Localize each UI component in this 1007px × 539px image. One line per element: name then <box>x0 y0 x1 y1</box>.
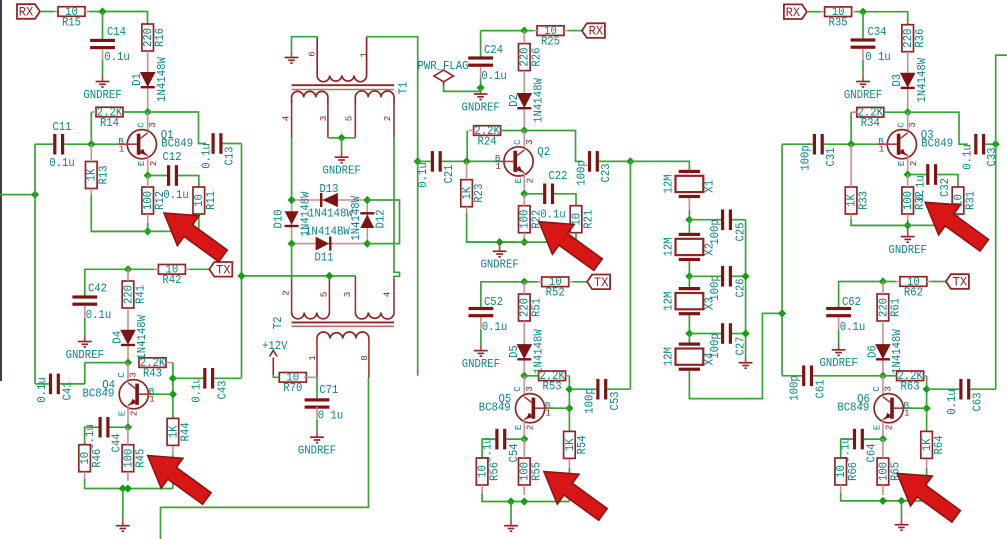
ground <box>745 357 747 363</box>
bridge bottom line <box>292 243 368 245</box>
wire rail to C21 <box>418 160 431 162</box>
svg-text:R42: R42 <box>162 274 181 287</box>
T1 pin 2 wire down to T2 pin 4 <box>393 103 395 138</box>
+12V power symbol <box>272 358 274 375</box>
junction <box>144 227 152 235</box>
wire C24 branch to node <box>481 30 525 32</box>
wire X1 to X2 <box>688 220 690 233</box>
svg-text:3: 3 <box>524 386 535 392</box>
wire C71 to ground <box>316 420 318 431</box>
junction collector node Q5 <box>520 372 528 380</box>
wire bottom rail block6 <box>841 493 927 501</box>
svg-text:E: E <box>513 424 524 430</box>
svg-text:E: E <box>117 410 128 416</box>
svg-text:C: C <box>136 122 147 128</box>
svg-text:C71: C71 <box>319 384 338 397</box>
svg-text:100p: 100p <box>788 375 801 401</box>
wire pin4 down <box>291 138 293 201</box>
wire C62 branch to node <box>839 282 883 308</box>
wire C25 to cap rail <box>732 219 746 221</box>
svg-text:+12V: +12V <box>262 340 288 353</box>
wire to C71 <box>316 377 318 398</box>
svg-text:T2: T2 <box>272 316 285 329</box>
svg-text:C12: C12 <box>162 151 181 164</box>
svg-text:1N4148W: 1N4148W <box>916 58 929 103</box>
red arrow 5 (points at R55) <box>544 472 607 521</box>
svg-text:R16: R16 <box>154 28 167 47</box>
junction <box>520 238 528 246</box>
svg-text:C21: C21 <box>443 164 456 183</box>
resistor R46 <box>79 445 91 472</box>
svg-text:100p: 100p <box>709 219 722 245</box>
svg-text:RX: RX <box>786 5 801 20</box>
svg-text:C43: C43 <box>216 380 229 399</box>
wire R34 to base rail <box>850 112 852 144</box>
svg-text:3: 3 <box>524 139 535 145</box>
svg-text:1N4148W: 1N4148W <box>350 196 363 241</box>
wire R12 to bottom rail <box>147 223 149 231</box>
capacitor C63 <box>959 379 962 400</box>
ground <box>510 520 512 526</box>
wire C33 to right rail <box>985 143 996 145</box>
svg-text:C31: C31 <box>825 147 838 166</box>
svg-text:R63: R63 <box>901 381 920 394</box>
svg-text:100p: 100p <box>575 160 588 186</box>
wire R34 to node <box>884 111 908 113</box>
wire input rail to C31 <box>782 143 813 145</box>
wire T1 pin2 to T2 pin4 <box>394 138 400 279</box>
junction collector node Q3 <box>904 108 912 116</box>
capacitor C62 <box>826 307 851 310</box>
resistor R34 <box>857 107 884 117</box>
junction R51 top node <box>520 278 528 286</box>
wire C11 to base <box>64 143 118 145</box>
svg-text:1N4148W: 1N4148W <box>308 207 353 220</box>
svg-text:1: 1 <box>149 394 155 405</box>
wire C53 to filter rail <box>607 388 630 390</box>
svg-text:R62: R62 <box>904 286 923 299</box>
wire bridge out <box>291 244 293 277</box>
svg-text:Q2: Q2 <box>537 146 550 159</box>
svg-text:1N414BW: 1N414BW <box>305 226 350 239</box>
diode D12 <box>366 200 368 244</box>
capacitor C13 <box>212 133 215 154</box>
svg-text:R31: R31 <box>964 191 977 210</box>
junction <box>626 157 634 165</box>
svg-text:R45: R45 <box>134 449 147 468</box>
svg-text:6: 6 <box>306 51 317 57</box>
bridge top line <box>292 199 368 201</box>
svg-text:2: 2 <box>148 161 159 167</box>
svg-text:1: 1 <box>495 161 501 172</box>
svg-text:GNDREF: GNDREF <box>322 165 360 178</box>
svg-text:D10: D10 <box>272 209 285 228</box>
junction <box>859 8 867 16</box>
diode D11 <box>316 237 330 251</box>
wire R22 to bottom <box>523 238 525 242</box>
svg-text:GNDREF: GNDREF <box>462 358 500 371</box>
wire X1 out <box>688 210 690 220</box>
wire node to R42 <box>128 268 154 270</box>
svg-text:1N4148W: 1N4148W <box>891 329 904 374</box>
T1 pins 3,5 center tap <box>327 103 329 138</box>
wire TX rail down <box>241 144 243 276</box>
wire node to R52 <box>524 281 537 283</box>
svg-text:0 1u: 0 1u <box>318 410 344 423</box>
svg-text:D4: D4 <box>112 331 125 344</box>
capacitor C42 <box>72 295 97 298</box>
T2 sec-right arcs <box>355 313 394 319</box>
junction <box>992 140 1000 148</box>
svg-text:C11: C11 <box>52 121 71 134</box>
red arrow 4 (points at R45) <box>148 456 211 505</box>
wire RX to R15 <box>40 11 55 13</box>
wire C41 to node <box>60 383 85 385</box>
T1 sec-left arcs <box>292 91 328 97</box>
resistor R45 <box>122 445 134 472</box>
svg-text:C61: C61 <box>814 379 827 398</box>
wire filter input <box>630 161 689 169</box>
svg-text:5: 5 <box>318 292 329 298</box>
wire input rail down to C61 <box>781 144 783 376</box>
wire bottom rail block2 <box>467 233 576 242</box>
svg-text:100p: 100p <box>799 145 812 171</box>
resistor R55 <box>519 458 531 485</box>
wire node to C25 <box>689 219 721 221</box>
junction collector node Q6 <box>879 372 887 380</box>
global label TX (block5) <box>587 275 610 290</box>
wire R25 to RX flag <box>569 30 582 32</box>
svg-text:0.1u: 0.1u <box>190 377 203 403</box>
resistor R12 <box>142 187 154 214</box>
capacitor C61 <box>802 366 805 387</box>
T1 sec-right arcs <box>355 91 394 97</box>
svg-text:GNDREF: GNDREF <box>461 101 499 114</box>
wire C62 to ground <box>838 330 840 344</box>
capacitor C27 <box>721 323 724 344</box>
resistor R26 <box>519 44 531 71</box>
wire from left edge <box>0 194 35 196</box>
svg-text:C: C <box>871 386 882 392</box>
capacitor C25 <box>721 209 724 230</box>
wire C54 to R56 <box>482 439 495 458</box>
wire emitter to C22 <box>524 193 543 195</box>
junction R26 top node <box>520 27 528 35</box>
resistor R15 <box>58 7 85 17</box>
crystal X3 <box>679 287 700 290</box>
wire R13 to bottom rail <box>91 195 147 231</box>
svg-text:C: C <box>116 372 127 378</box>
svg-text:2: 2 <box>883 425 894 431</box>
wire node to C26 <box>689 275 721 277</box>
wire +12V to R70 <box>273 375 279 377</box>
wire rail to C61 <box>782 375 802 377</box>
resistor R24 <box>474 126 501 136</box>
svg-text:R55: R55 <box>531 462 544 481</box>
wire C52 branch to node <box>481 282 524 307</box>
svg-text:GNDREF: GNDREF <box>819 357 857 370</box>
wire C21 to base <box>442 160 495 162</box>
junction <box>363 196 371 204</box>
svg-text:E: E <box>136 160 147 166</box>
svg-text:0.1u: 0.1u <box>840 321 866 334</box>
crystal X2 <box>679 233 700 236</box>
svg-text:C53: C53 <box>609 391 622 410</box>
ground GNDREF <box>480 88 482 94</box>
svg-text:8: 8 <box>359 355 370 361</box>
svg-text:0 1u: 0 1u <box>865 51 891 64</box>
red arrow 2 (points at R22) <box>539 222 602 271</box>
svg-text:R32: R32 <box>914 191 927 210</box>
capacitor C64 <box>853 429 856 450</box>
svg-text:R13: R13 <box>98 165 111 184</box>
resistor R14 <box>96 107 123 117</box>
svg-text:R41: R41 <box>134 285 147 304</box>
wire C42 branch to node <box>85 269 128 295</box>
wire X3 to X4 <box>688 334 690 343</box>
svg-text:C63: C63 <box>971 392 984 411</box>
junction <box>288 240 296 248</box>
svg-text:T1: T1 <box>397 82 410 95</box>
resistor R53 <box>539 371 566 381</box>
svg-text:BC849: BC849 <box>161 137 193 150</box>
junction emitter node Q6 <box>879 435 887 443</box>
svg-text:5: 5 <box>344 116 355 122</box>
ground GNDREF <box>316 431 318 437</box>
ground GNDREF <box>499 242 501 251</box>
wire C52 to ground <box>480 330 482 344</box>
svg-text:2: 2 <box>128 411 139 417</box>
wire right rail <box>996 55 1007 389</box>
transistor Q5 <box>516 394 545 423</box>
wire long bottom run to T2 pin 8 <box>161 378 369 539</box>
junction <box>338 134 346 142</box>
svg-text:3: 3 <box>342 292 353 298</box>
svg-text:R43: R43 <box>143 367 162 380</box>
wire R33 to bottom rail <box>851 219 908 225</box>
capacitor C22 <box>543 184 546 205</box>
wire rail down to C51 <box>417 161 419 375</box>
junction <box>119 484 127 492</box>
svg-text:TX: TX <box>594 275 609 290</box>
wire C24 to ground node <box>480 78 482 88</box>
wire R62 to TX flag <box>931 281 946 283</box>
wire C27 to cap rail <box>732 333 746 335</box>
global label RX (block1) <box>17 4 40 19</box>
junction <box>742 329 750 337</box>
wire filter output <box>689 313 782 398</box>
svg-text:C34: C34 <box>867 26 886 39</box>
wire R35 to R36 <box>856 12 908 25</box>
svg-text:BC849: BC849 <box>83 387 115 400</box>
svg-text:GNDREF: GNDREF <box>66 349 104 362</box>
junction <box>685 329 693 337</box>
wire X3 out <box>688 315 690 333</box>
wire C26 to cap rail <box>732 275 746 277</box>
capacitor C53 <box>596 379 599 400</box>
wire X2 to X3 <box>688 276 690 287</box>
junction base node Q2 <box>463 157 471 165</box>
wire R42 to TX flag <box>190 268 209 270</box>
wire C64 to R66 <box>841 439 853 458</box>
wire base rail Q6 <box>926 376 928 432</box>
svg-text:RX: RX <box>589 24 604 39</box>
wire C44 to R46 <box>85 427 99 445</box>
wire node to R25 <box>524 30 533 32</box>
wire bottom rail block3 <box>851 214 958 225</box>
wire R23 to bottom rail <box>467 213 525 242</box>
wire T1 pin6 to gnd <box>292 37 318 52</box>
svg-text:1: 1 <box>879 144 885 155</box>
resistor R22 <box>519 206 531 233</box>
junction <box>31 191 39 199</box>
svg-text:D13: D13 <box>319 183 338 196</box>
junction <box>879 497 887 505</box>
capacitor C33 <box>974 134 977 155</box>
wire node to R63 <box>883 375 897 377</box>
svg-text:R24: R24 <box>478 135 497 148</box>
svg-text:R35: R35 <box>829 17 848 30</box>
junction <box>904 221 912 229</box>
svg-text:X3: X3 <box>704 297 717 310</box>
wire to ground <box>901 501 903 519</box>
svg-text:C42: C42 <box>88 282 107 295</box>
crystal X4 <box>679 343 700 346</box>
svg-text:D11: D11 <box>314 252 333 265</box>
wire C54 to emitter <box>506 438 524 440</box>
svg-text:TX: TX <box>953 275 968 290</box>
capacitor C23 <box>588 151 591 172</box>
junction C43 tap <box>169 374 177 382</box>
wire C63 to right rail <box>970 388 995 390</box>
svg-text:3: 3 <box>882 386 893 392</box>
diode D6 <box>876 345 890 359</box>
T2 core <box>292 321 394 323</box>
svg-text:100p: 100p <box>583 388 596 414</box>
svg-text:GNDREF: GNDREF <box>480 259 518 272</box>
svg-text:C32: C32 <box>939 178 952 197</box>
junction <box>520 497 528 505</box>
global label TX (block6) <box>946 274 969 289</box>
svg-text:2: 2 <box>281 290 292 296</box>
svg-text:R12: R12 <box>154 191 167 210</box>
svg-text:BC849: BC849 <box>479 401 511 414</box>
wire left rail up <box>34 144 36 194</box>
wire C44 to emitter <box>110 426 129 428</box>
svg-text:R21: R21 <box>582 210 595 229</box>
svg-text:1: 1 <box>119 144 125 155</box>
svg-text:R66: R66 <box>847 462 860 481</box>
wire C14 to ground <box>102 60 104 75</box>
transistor Q3 <box>887 130 916 159</box>
svg-text:C: C <box>512 139 523 145</box>
svg-text:R52: R52 <box>546 287 565 300</box>
capacitor C11 <box>53 134 56 155</box>
wire C43 to TX rail <box>214 377 241 379</box>
svg-text:E: E <box>896 160 907 166</box>
svg-text:D12: D12 <box>375 209 388 228</box>
junction R61 top node <box>879 277 887 285</box>
diode D10 <box>291 200 293 244</box>
wire C22 to R21 <box>554 194 576 206</box>
crystal X1 <box>679 170 700 173</box>
resistor R62 <box>900 277 927 287</box>
resistor R44 <box>167 418 179 445</box>
capacitor C52 <box>469 307 494 310</box>
svg-text:E: E <box>513 177 524 183</box>
svg-text:D5: D5 <box>508 345 521 358</box>
capacitor C26 <box>721 266 724 287</box>
junction <box>98 7 106 15</box>
junction base node Q4 <box>169 390 177 398</box>
ground GNDREF <box>102 75 104 81</box>
resistor R70 <box>279 373 306 383</box>
capacitor C12 <box>167 165 170 186</box>
svg-text:4: 4 <box>281 115 292 121</box>
wire C13 to TX rail <box>223 143 242 145</box>
resistor R43 <box>139 358 166 368</box>
wire rail to C41 <box>35 383 49 385</box>
ground <box>901 519 903 525</box>
resistor R32 <box>902 187 914 214</box>
svg-text:GNDREF: GNDREF <box>298 445 336 458</box>
diode D3 <box>901 73 915 87</box>
T1 pin 4 wire down to bridge <box>291 103 293 138</box>
svg-text:R25: R25 <box>541 35 560 48</box>
svg-text:GNDREF: GNDREF <box>83 89 121 102</box>
global label RX (block2) <box>582 23 605 38</box>
junction <box>363 240 371 248</box>
svg-text:C33: C33 <box>986 147 999 166</box>
ground GNDREF <box>862 75 864 81</box>
svg-text:R46: R46 <box>91 449 104 468</box>
diode D2 <box>517 94 531 108</box>
resistor R52 <box>542 277 569 287</box>
wire to C34 <box>862 12 864 39</box>
transistor Q1 <box>127 130 156 159</box>
resistor R35 <box>825 7 852 17</box>
svg-text:0.1u: 0.1u <box>200 143 213 169</box>
resistor R61 <box>877 294 889 321</box>
svg-text:R54: R54 <box>576 435 589 454</box>
svg-text:2: 2 <box>525 425 536 431</box>
svg-text:R23: R23 <box>473 184 486 203</box>
junction <box>897 497 905 505</box>
svg-text:2: 2 <box>382 116 393 122</box>
svg-text:R53: R53 <box>543 381 562 394</box>
ground <box>122 520 124 526</box>
svg-text:C27: C27 <box>734 336 747 355</box>
ground <box>291 51 293 57</box>
wire bottom rail block5 <box>482 493 569 502</box>
resistor R33 <box>845 187 857 214</box>
wire RX to R35 <box>807 11 821 13</box>
resistor R16 <box>142 24 154 51</box>
svg-text:C24: C24 <box>484 44 503 57</box>
resistor R21 <box>570 206 582 233</box>
svg-text:GNDREF: GNDREF <box>844 89 882 102</box>
wire input to C11 <box>35 143 53 145</box>
diode D4 <box>121 330 135 344</box>
svg-text:C26: C26 <box>734 278 747 297</box>
svg-text:C52: C52 <box>484 296 503 309</box>
svg-text:0.1u: 0.1u <box>540 208 566 221</box>
window border edge <box>0 0 2 381</box>
red arrow 6 (points at R65) <box>897 473 960 522</box>
wire TX rail to T2 taps <box>242 275 356 277</box>
svg-text:C13: C13 <box>223 146 236 165</box>
wire C34 to ground <box>862 60 864 75</box>
